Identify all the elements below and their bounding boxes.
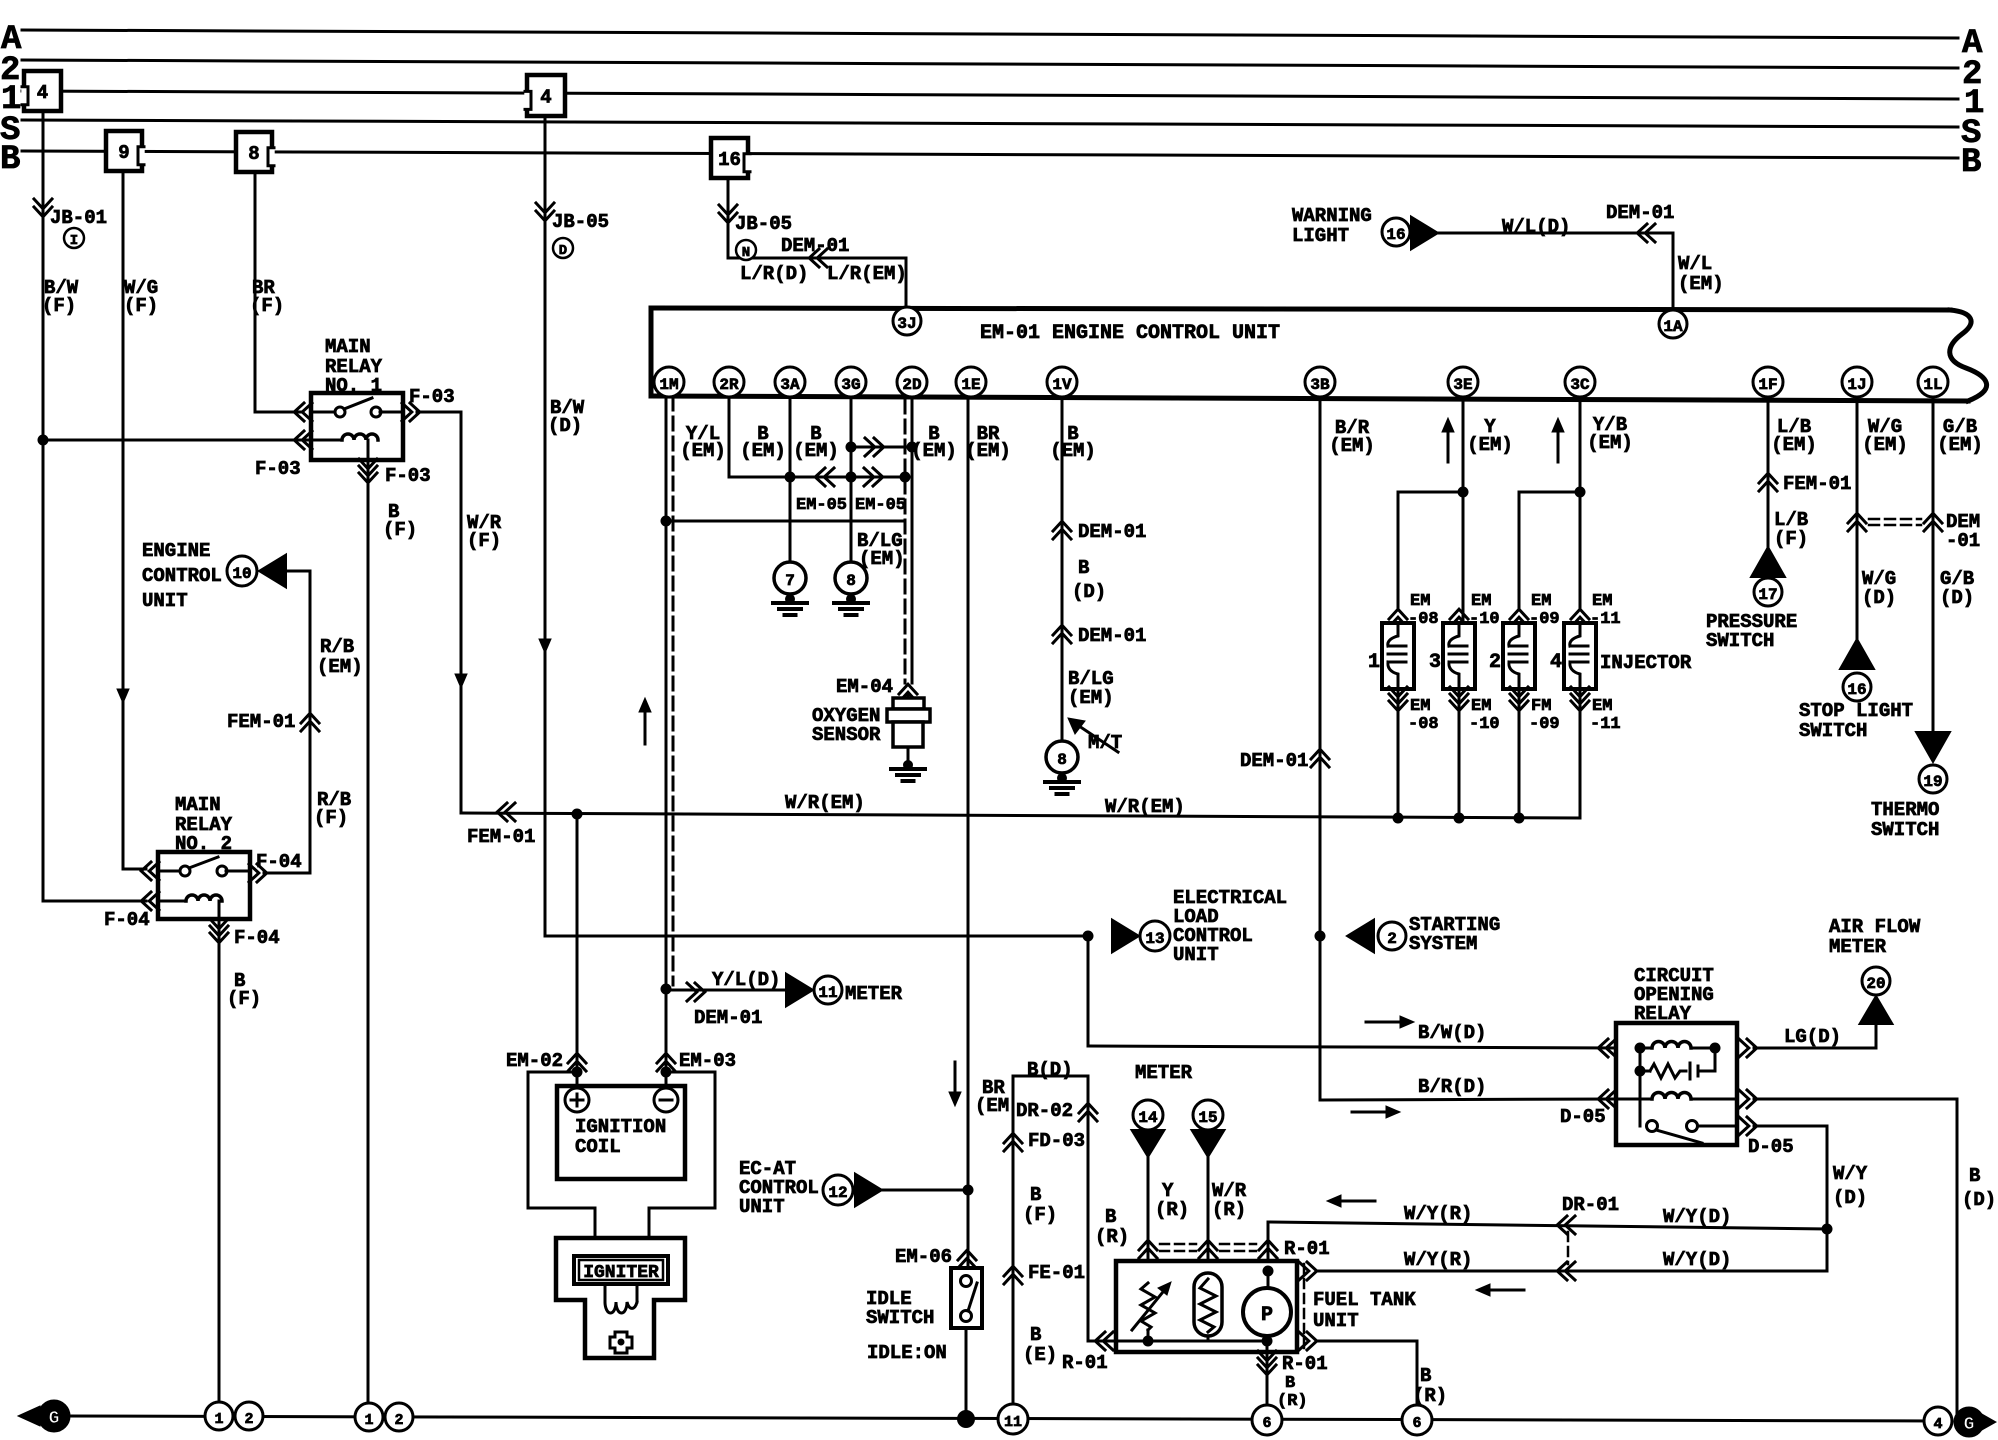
svg-text:1J: 1J	[1847, 376, 1866, 394]
svg-text:(EM): (EM)	[859, 548, 905, 570]
svg-text:THERMO: THERMO	[1871, 799, 1939, 821]
wire W/L(D)	[1438, 232, 1673, 235]
junction Y/L(D) tap	[661, 984, 672, 995]
svg-text:2R: 2R	[719, 376, 739, 394]
svg-text:SWITCH: SWITCH	[866, 1307, 934, 1329]
connector FE-01 chevron	[1004, 1266, 1022, 1276]
fuel pump top lead	[1267, 1271, 1270, 1288]
svg-text:DR-02: DR-02	[1016, 1100, 1073, 1122]
variable resistor fuel gauge	[1141, 1283, 1155, 1330]
svg-text:G: G	[49, 1409, 60, 1429]
connector EM-03 chevron	[657, 1053, 675, 1063]
injector 1 body	[1382, 623, 1414, 689]
svg-text:(F): (F)	[227, 988, 261, 1010]
triangle pressure switch	[1751, 547, 1785, 577]
svg-text:6: 6	[1262, 1415, 1271, 1432]
pin 1F	[1753, 367, 1783, 397]
wire B/W(D) vertical	[544, 116, 547, 936]
connector box 4 (mid)	[527, 75, 565, 116]
pin 2R	[714, 367, 744, 397]
wire 3E to injectors	[1462, 397, 1465, 623]
bus line 2	[22, 60, 1958, 68]
svg-text:7: 7	[785, 572, 795, 590]
svg-text:FEM-01: FEM-01	[227, 711, 295, 733]
fuel pump	[1243, 1288, 1291, 1336]
svg-text:13: 13	[1145, 930, 1164, 948]
connector DEM-01 chevron 3B	[1311, 749, 1329, 759]
circle 11 meter	[814, 976, 842, 1004]
ground circle 6a	[1252, 1405, 1282, 1435]
pin 3A	[775, 367, 805, 397]
idle switch contacts	[961, 1276, 972, 1287]
svg-text:METER: METER	[1135, 1062, 1193, 1084]
injector 2 connector top	[1510, 609, 1528, 619]
circle 10	[227, 556, 257, 586]
igniter outline	[556, 1238, 685, 1358]
oxygen sensor body	[907, 694, 910, 698]
svg-text:8: 8	[1057, 751, 1067, 769]
svg-text:AIR FLOW: AIR FLOW	[1829, 916, 1921, 938]
ground circle 8 (1V)	[1046, 741, 1078, 773]
svg-text:16: 16	[1847, 681, 1866, 699]
fuel sender oval	[1194, 1273, 1222, 1336]
injector 2 wire to bus	[1518, 689, 1521, 818]
ground symbol G right	[1980, 1413, 1996, 1431]
wire 3C to injectors	[1579, 397, 1582, 607]
wire BR(EM) 1E	[967, 397, 970, 1268]
svg-text:EM-06: EM-06	[895, 1246, 952, 1268]
svg-text:JB-05: JB-05	[552, 211, 609, 233]
svg-text:(EM): (EM)	[1937, 434, 1983, 456]
fuel tank exit chevrons right bottom	[1299, 1332, 1309, 1350]
svg-text:WARNING: WARNING	[1292, 205, 1372, 227]
svg-text:W/Y(R): W/Y(R)	[1404, 1249, 1472, 1271]
fuel tank exit chevrons right top	[1299, 1262, 1309, 1280]
wire EM-02	[576, 814, 579, 1086]
junction ELCU	[1083, 931, 1094, 942]
svg-text:(F): (F)	[1023, 1204, 1057, 1226]
svg-text:14: 14	[1138, 1109, 1158, 1127]
svg-text:EM-02: EM-02	[506, 1050, 563, 1072]
svg-text:M/T: M/T	[1088, 732, 1122, 754]
injector 2 connector bottom	[1510, 687, 1528, 697]
svg-text:-10: -10	[1469, 715, 1500, 734]
main relay no.1 box	[311, 393, 403, 460]
svg-text:12: 12	[828, 1184, 847, 1202]
chevron DEM-01 YL	[687, 983, 697, 1001]
chevron EM-05 right	[864, 468, 874, 486]
svg-text:IGNITION: IGNITION	[575, 1116, 666, 1138]
connector FD-03 chevron	[1004, 1133, 1022, 1143]
svg-text:EM: EM	[1592, 592, 1612, 611]
svg-text:B: B	[1420, 1365, 1431, 1387]
junction injectors	[1393, 813, 1404, 824]
svg-text:W/Y(D): W/Y(D)	[1663, 1206, 1731, 1228]
svg-text:F-03: F-03	[255, 458, 301, 480]
svg-text:FUEL TANK: FUEL TANK	[1313, 1289, 1416, 1311]
svg-text:F-03: F-03	[385, 465, 431, 487]
svg-text:SWITCH: SWITCH	[1706, 630, 1774, 652]
flow arrow 3E	[1447, 428, 1450, 462]
wire 2D shield dashed	[904, 400, 907, 683]
svg-text:L/R(EM): L/R(EM)	[827, 263, 907, 285]
ground symbol 7	[785, 594, 795, 604]
svg-text:FE-01: FE-01	[1028, 1262, 1085, 1284]
svg-text:G: G	[1964, 1415, 1975, 1435]
pin 3C	[1565, 367, 1595, 397]
svg-text:EM: EM	[1531, 592, 1551, 611]
connector DEM-01 chevron upper	[1053, 521, 1071, 531]
wire B(R) fuel tank to bus	[1316, 1340, 1417, 1343]
connector FEM-01 chevron	[301, 713, 319, 723]
flow arrow W/G(F)	[122, 655, 125, 693]
svg-text:UNIT: UNIT	[739, 1196, 785, 1218]
flow arrow Y/L up	[644, 708, 647, 744]
svg-text:STOP LIGHT: STOP LIGHT	[1799, 700, 1913, 722]
link row EM-05	[729, 476, 905, 479]
svg-text:MAIN: MAIN	[325, 336, 371, 358]
svg-text:SYSTEM: SYSTEM	[1409, 933, 1477, 955]
wire B/W(D) to relay	[1087, 936, 1090, 1046]
svg-text:1F: 1F	[1758, 376, 1777, 394]
idle switch box	[951, 1268, 982, 1328]
svg-text:2: 2	[244, 1411, 253, 1428]
svg-text:N: N	[742, 245, 750, 261]
svg-text:(EM: (EM	[975, 1095, 1009, 1117]
wire B/W(F) to relay1 coil	[43, 439, 311, 442]
wire 2R	[728, 397, 731, 477]
wire B bracket	[1013, 1075, 1088, 1078]
svg-text:R-01: R-01	[1284, 1238, 1330, 1260]
triangle air flow meter	[1860, 996, 1893, 1024]
ground symbol 1V	[1057, 773, 1067, 783]
svg-text:MAIN: MAIN	[175, 794, 221, 816]
wire L/R from box 16	[727, 178, 730, 258]
circle 20	[1862, 967, 1890, 995]
bus line A	[22, 30, 1958, 38]
ground circle 6b	[1402, 1405, 1432, 1435]
svg-text:16: 16	[1386, 226, 1405, 244]
svg-text:4: 4	[1550, 651, 1562, 674]
svg-text:FD-03: FD-03	[1028, 1130, 1085, 1152]
circuit opening relay box	[1616, 1023, 1737, 1145]
svg-text:INJECTOR: INJECTOR	[1600, 652, 1692, 674]
connector EM-04 chevron	[899, 684, 917, 694]
svg-text:1: 1	[364, 1412, 373, 1429]
circle 2 starting	[1378, 922, 1406, 950]
svg-text:(EM): (EM)	[1587, 432, 1633, 454]
wire B/W(F) vertical	[42, 111, 45, 901]
M/T arrow	[1076, 724, 1118, 752]
svg-text:(EM): (EM)	[1068, 687, 1114, 709]
svg-text:(D): (D)	[1833, 1187, 1867, 1209]
svg-text:(R): (R)	[1212, 1199, 1246, 1221]
wire W/Y(D) from relay switch	[1754, 1125, 1827, 1128]
chevron link row upper	[865, 438, 875, 456]
pin 1L	[1918, 367, 1948, 397]
svg-text:17: 17	[1758, 586, 1777, 604]
svg-text:EM: EM	[1410, 697, 1430, 716]
wire B/W(D) horizontal	[545, 935, 1088, 938]
junction W/Y	[1822, 1224, 1833, 1235]
wire B(F) relay1 down	[367, 485, 370, 1420]
circle 14	[1133, 1100, 1163, 1130]
svg-text:-11: -11	[1590, 715, 1621, 734]
svg-text:(R): (R)	[1277, 1392, 1308, 1411]
flow arrow W/Y lower	[1486, 1289, 1524, 1292]
connector box 4 (left)	[24, 71, 61, 111]
svg-text:DR-01: DR-01	[1562, 1194, 1619, 1216]
warning light triangle	[1411, 217, 1438, 250]
svg-text:W/R(EM): W/R(EM)	[1105, 796, 1185, 818]
flow arrow B/W(D)	[544, 605, 547, 643]
relay1 switch	[311, 411, 336, 414]
svg-text:(D): (D)	[548, 415, 582, 437]
relay coil 1	[1640, 1047, 1652, 1050]
svg-text:R/B: R/B	[320, 636, 354, 658]
relay2 chevron coil in	[141, 892, 151, 910]
pin 1A	[1659, 310, 1687, 338]
connector DR-01	[1557, 1216, 1567, 1234]
svg-text:SENSOR: SENSOR	[812, 724, 881, 746]
junction EM-02 tap	[572, 809, 583, 820]
relay1 chevron coil in	[294, 431, 304, 449]
svg-text:-09: -09	[1529, 715, 1560, 734]
injector 4 connector top	[1571, 609, 1589, 619]
svg-text:20: 20	[1866, 975, 1885, 993]
svg-text:4: 4	[540, 87, 551, 109]
connector box 9	[106, 131, 142, 171]
connector R-01 row	[1139, 1240, 1157, 1250]
connector R-01 chevron left	[1095, 1332, 1105, 1350]
svg-text:B: B	[1078, 557, 1089, 579]
triangle engine control unit	[259, 555, 286, 588]
svg-text:1A: 1A	[1663, 318, 1683, 336]
svg-text:8: 8	[846, 572, 856, 590]
circle 15	[1193, 1100, 1223, 1130]
relay2 chevron switch in	[141, 862, 151, 880]
relay2 coil out	[218, 919, 221, 1420]
connector box 8	[236, 132, 272, 172]
svg-text:-08: -08	[1408, 715, 1439, 734]
injector 1 connector bottom	[1389, 687, 1407, 697]
triangle stop light switch	[1840, 639, 1874, 669]
svg-text:(F): (F)	[314, 807, 348, 829]
wire W/R(EM) bus	[461, 813, 1580, 818]
junction B/W(F) to relay1	[38, 435, 49, 446]
wire B(R) into fuel tank	[1088, 1340, 1116, 1343]
ground circle 8	[835, 562, 867, 594]
triangle thermo switch	[1916, 732, 1950, 762]
wire B(D) right	[1754, 1098, 1957, 1101]
svg-text:3A: 3A	[780, 376, 800, 394]
svg-text:F-04: F-04	[256, 851, 302, 873]
link row 3G-2D	[851, 446, 912, 449]
svg-text:FEM-01: FEM-01	[1783, 473, 1851, 495]
bus line S	[22, 120, 1958, 127]
wire B/R 3B	[1319, 397, 1322, 1100]
svg-text:W/L(D): W/L(D)	[1502, 216, 1570, 238]
svg-text:FM: FM	[1531, 697, 1551, 716]
svg-text:LIGHT: LIGHT	[1292, 225, 1349, 247]
svg-text:UNIT: UNIT	[1313, 1310, 1359, 1332]
svg-text:1V: 1V	[1052, 376, 1072, 394]
injector 2 coil	[1509, 623, 1527, 689]
svg-text:16: 16	[718, 149, 741, 171]
circled N	[736, 240, 756, 260]
wire G/B 1L	[1932, 397, 1935, 731]
svg-text:(EM): (EM)	[1862, 434, 1908, 456]
svg-text:B: B	[1285, 1374, 1295, 1393]
svg-text:(D): (D)	[1072, 581, 1106, 603]
wire pump to ground bus	[1266, 1341, 1269, 1420]
svg-text:L/R(D): L/R(D)	[740, 263, 808, 285]
svg-text:(EM): (EM)	[911, 440, 957, 462]
wire BR(F) vertical	[254, 172, 257, 412]
wire 3G	[850, 397, 853, 562]
svg-text:3J: 3J	[897, 315, 916, 333]
svg-text:W/Y: W/Y	[1833, 1163, 1868, 1185]
fuel tank unit box	[1116, 1261, 1297, 1352]
svg-text:6: 6	[1412, 1415, 1421, 1432]
svg-text:(R): (R)	[1155, 1199, 1189, 1221]
injector 2 body	[1503, 623, 1535, 689]
relay switch	[1647, 1121, 1658, 1132]
svg-text:METER: METER	[1829, 936, 1887, 958]
relay1 coil out chevron F-03	[367, 460, 370, 813]
pin 1J	[1842, 367, 1872, 397]
svg-text:METER: METER	[845, 983, 903, 1005]
svg-text:IDLE:ON: IDLE:ON	[867, 1342, 947, 1364]
svg-text:D-05: D-05	[1560, 1106, 1606, 1128]
svg-text:19: 19	[1923, 773, 1942, 791]
svg-text:4: 4	[1933, 1416, 1942, 1433]
svg-text:EM-03: EM-03	[679, 1050, 736, 1072]
svg-text:(EM): (EM)	[965, 440, 1011, 462]
wire 1M Y/L shield dashed	[672, 397, 675, 985]
junction EM-03	[661, 1067, 672, 1078]
svg-text:1: 1	[214, 1411, 223, 1428]
svg-text:W/L: W/L	[1678, 253, 1712, 275]
connector EM-02 chevron	[568, 1053, 586, 1063]
svg-text:2: 2	[394, 1412, 403, 1429]
connector DEM-01 crossing	[1848, 513, 1866, 523]
connector FEM-01 chevron 1F	[1759, 473, 1777, 483]
svg-text:9: 9	[118, 142, 129, 164]
wire B(EM) 1V	[1061, 397, 1064, 740]
connector FEM-01 chevron bus	[497, 803, 507, 821]
ignition coil + terminal	[565, 1088, 589, 1112]
svg-text:EM-05: EM-05	[855, 496, 906, 515]
injector 3 connector top	[1450, 609, 1468, 619]
wire Y/L(EM) lower	[665, 985, 668, 1086]
svg-text:(D): (D)	[1940, 587, 1974, 609]
svg-text:B(D): B(D)	[1027, 1059, 1073, 1081]
svg-text:-01: -01	[1946, 530, 1980, 552]
triangle EC-AT	[855, 1174, 882, 1207]
ground circle 1a	[205, 1402, 233, 1430]
svg-text:(F): (F)	[250, 295, 284, 317]
relay1 chevron switch out	[402, 403, 412, 421]
pin 1V	[1047, 367, 1077, 397]
svg-text:UNIT: UNIT	[1173, 944, 1219, 966]
relay coil 2	[1616, 1098, 1652, 1101]
svg-text:B: B	[0, 141, 20, 179]
pin 3J	[893, 307, 921, 335]
circled I	[64, 228, 84, 248]
svg-text:R-01: R-01	[1282, 1353, 1328, 1375]
wire Y(R)	[1147, 1157, 1150, 1283]
svg-text:B: B	[1105, 1206, 1116, 1228]
svg-text:DEM-01: DEM-01	[694, 1007, 762, 1029]
triangle meter 11	[786, 974, 813, 1007]
injector 4 wire to bus	[1579, 689, 1582, 818]
svg-text:SWITCH: SWITCH	[1871, 819, 1939, 841]
relay2 switch	[158, 870, 181, 873]
svg-text:B/R(D): B/R(D)	[1418, 1076, 1486, 1098]
ground symbol oxygen sensor	[903, 760, 913, 770]
svg-text:SWITCH: SWITCH	[1799, 720, 1867, 742]
connector box 16	[711, 138, 748, 178]
svg-text:DEM-01: DEM-01	[1078, 521, 1146, 543]
connector JB-05 chevron (D)	[536, 203, 554, 213]
bus line 1	[22, 91, 1958, 99]
injector 1 coil	[1388, 623, 1406, 689]
connector JB-01 chevron	[34, 199, 52, 209]
circled D	[553, 238, 573, 258]
svg-text:F-04: F-04	[104, 909, 150, 931]
relay2 coil	[158, 900, 186, 903]
relay chevrons left	[1598, 1039, 1608, 1057]
svg-text:B: B	[1030, 1184, 1041, 1206]
svg-text:3: 3	[1429, 651, 1441, 674]
wire W/R(R)	[1207, 1157, 1210, 1279]
svg-text:R-01: R-01	[1062, 1352, 1108, 1374]
fuel tank bottom wire	[1110, 1340, 1267, 1343]
connector DEM-01 chevron	[1637, 224, 1647, 242]
pin 3G	[836, 367, 866, 397]
wire relay1 to W/R(F)	[417, 411, 461, 414]
wire W/G(F) vertical	[122, 171, 125, 869]
svg-text:(F): (F)	[1774, 528, 1808, 550]
svg-text:IGNITER: IGNITER	[583, 1263, 659, 1283]
svg-text:F-04: F-04	[234, 927, 280, 949]
igniter spark plug	[610, 1332, 632, 1353]
circle 16 warning light	[1382, 218, 1410, 246]
triangle ELCU	[1112, 920, 1139, 953]
connector DEM-01 chevron lower	[1053, 625, 1071, 635]
ground symbol 8	[846, 594, 856, 604]
svg-text:(R): (R)	[1095, 1226, 1129, 1248]
bus line B	[22, 151, 1958, 158]
svg-text:(EM): (EM)	[1050, 440, 1096, 462]
svg-text:B: B	[1961, 144, 1981, 182]
connector R-01 pump chevron	[1258, 1351, 1276, 1361]
circle 13	[1140, 921, 1170, 951]
svg-text:2: 2	[1387, 930, 1397, 948]
injector 3 body	[1443, 623, 1475, 689]
triangle 14	[1132, 1130, 1165, 1157]
pin 3E	[1448, 367, 1478, 397]
junction EC-AT	[963, 1185, 974, 1196]
svg-text:1E: 1E	[961, 376, 980, 394]
injector 3 connector bottom	[1450, 687, 1468, 697]
svg-text:(D): (D)	[1962, 1189, 1996, 1211]
circle 17	[1754, 578, 1782, 606]
ECU EM-01 box	[651, 308, 1950, 310]
svg-text:(EM): (EM)	[1771, 434, 1817, 456]
junction 1M link	[661, 516, 672, 527]
